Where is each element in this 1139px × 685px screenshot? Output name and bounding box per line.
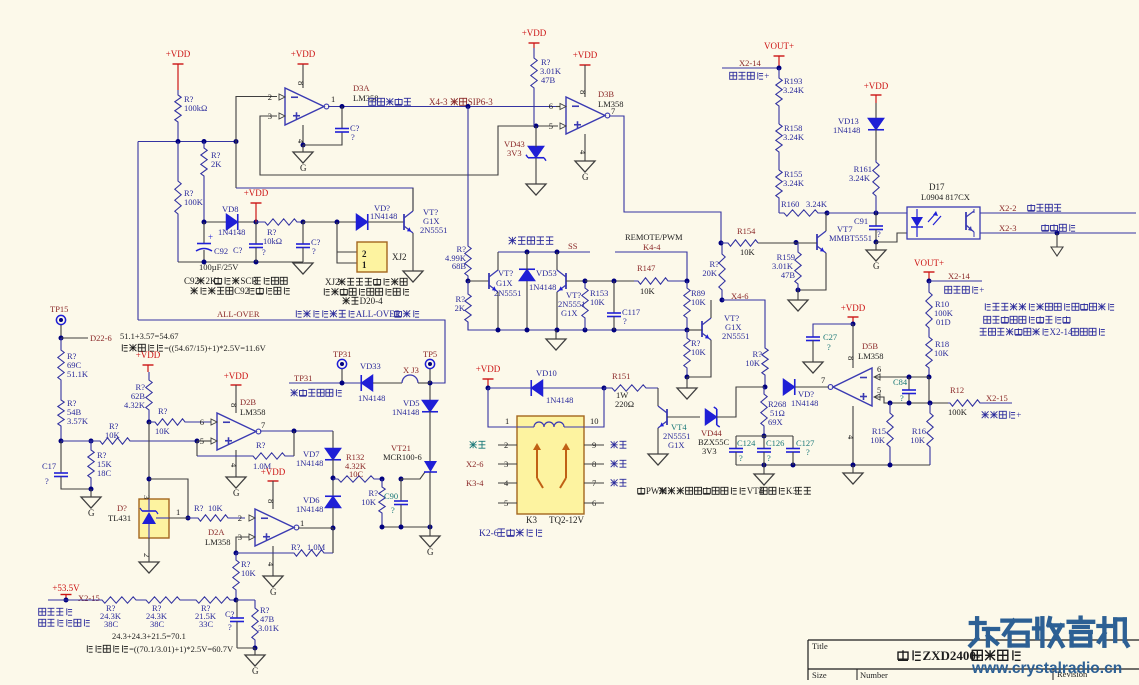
zener VD44 BZX55C 3V3	[705, 409, 717, 425]
svg-text:8: 8	[229, 403, 239, 407]
svg-text:X2-15: X2-15	[986, 393, 1008, 403]
svg-text:+VDD: +VDD	[261, 467, 286, 477]
wire VT21 cath	[429, 472, 431, 527]
svg-text:X2-2: X2-2	[999, 203, 1016, 213]
svg-text:100K: 100K	[184, 197, 204, 207]
svg-text:www.crystalradio.cn: www.crystalradio.cn	[971, 660, 1122, 677]
svg-text:TP5: TP5	[423, 349, 437, 359]
capacitor C? (b)	[296, 243, 310, 245]
pin note idle R8	[611, 463, 618, 465]
svg-text:X2-14: X2-14	[948, 271, 970, 281]
capacitor C91	[869, 225, 883, 227]
note XJ2 line2	[323, 288, 325, 295]
resistor R? 15K 18C	[88, 441, 94, 489]
wire stem C17 gnd	[90, 489, 92, 497]
svg-text:+VDD: +VDD	[166, 49, 191, 59]
op-amp D2B LM358	[217, 413, 256, 450]
svg-text:R?: R?	[158, 406, 168, 416]
svg-text:1: 1	[176, 507, 180, 517]
note calc4	[86, 645, 88, 652]
svg-text:C92: C92	[234, 286, 249, 296]
ground D2A	[263, 576, 283, 587]
resistor R? 100K	[175, 142, 181, 263]
svg-text:R?: R?	[256, 440, 266, 450]
wire D22-6 stub	[61, 337, 88, 339]
transistor VT4 2N5551 G1X	[666, 409, 668, 425]
svg-text:D5B: D5B	[862, 341, 878, 351]
junction	[399, 477, 404, 482]
wire TP31 stem	[341, 369, 343, 383]
svg-text:R?: R?	[291, 542, 301, 552]
svg-text:3.01K: 3.01K	[258, 623, 280, 633]
title block border	[808, 639, 1139, 641]
wire stem VT21 gnd	[429, 527, 431, 536]
svg-text:K3: K3	[526, 515, 537, 525]
capacitor C? (a)	[249, 243, 263, 245]
ground 53V divider	[245, 655, 265, 666]
svg-text:C?: C?	[225, 609, 235, 619]
diode VD8 1N4148	[226, 214, 238, 230]
svg-text:C92: C92	[214, 246, 228, 256]
junction	[399, 525, 404, 530]
svg-text:3V3: 3V3	[507, 148, 522, 158]
svg-text:+VDD: +VDD	[224, 371, 249, 381]
svg-text:1N4148: 1N4148	[529, 282, 556, 292]
svg-text:G1X: G1X	[496, 278, 513, 288]
diode VD5 1N4148	[422, 400, 438, 412]
ground delay row	[293, 263, 313, 274]
junction	[525, 328, 530, 333]
svg-text:?: ?	[767, 453, 771, 463]
wire alarm to D3B pin6	[468, 106, 556, 108]
wire fb left	[196, 441, 198, 456]
wire pin4 D2A	[272, 546, 274, 576]
resistor R? 62B 4.32K	[146, 372, 152, 422]
op-amp D5B LM358	[833, 368, 872, 406]
svg-text:33C: 33C	[199, 619, 214, 629]
watermark crystalradio.cn	[971, 618, 999, 645]
svg-text:X J3: X J3	[403, 365, 419, 375]
wire latch feedback	[236, 188, 413, 211]
pin5 arrow	[560, 123, 566, 129]
svg-text:24.3+24.3+21.5=70.1: 24.3+24.3+21.5=70.1	[112, 631, 186, 641]
svg-text:10K: 10K	[870, 435, 886, 445]
wire VD10 left	[488, 387, 531, 389]
note battery 1	[984, 303, 986, 310]
wire VD? to D5B	[795, 386, 829, 388]
wire gate link	[401, 472, 425, 479]
svg-text:10C: 10C	[349, 469, 364, 479]
junction	[331, 476, 336, 481]
wire C126 v	[763, 436, 765, 448]
svg-text:X2-6: X2-6	[466, 459, 483, 469]
wire C117 top	[613, 281, 615, 313]
svg-text:2K: 2K	[211, 159, 222, 169]
svg-text:TP31: TP31	[294, 373, 312, 383]
wire pin8 D3B	[584, 65, 586, 97]
junction	[202, 220, 207, 225]
diode VD33 1N4148	[361, 375, 373, 391]
svg-text:10K: 10K	[155, 426, 171, 436]
svg-text:?: ?	[877, 229, 881, 239]
junction	[685, 375, 690, 380]
wire C84 top	[908, 377, 910, 390]
svg-text:G: G	[300, 163, 307, 173]
wire C? tap	[236, 600, 238, 618]
wire X2-14 stub	[722, 67, 779, 69]
svg-text:10kΩ: 10kΩ	[263, 236, 282, 246]
op-amp D3A LM358	[285, 88, 324, 125]
wire VD33 to XJ3	[373, 382, 402, 384]
wire Q2 base	[468, 280, 489, 282]
wire X2-14 mid	[929, 280, 982, 282]
diode VD7 1N4148	[325, 448, 341, 460]
svg-text:TP31: TP31	[333, 349, 351, 359]
wire cathode link	[876, 233, 907, 242]
note PWM duty	[638, 489, 645, 494]
wire fb corner	[332, 528, 334, 553]
junction	[335, 220, 340, 225]
svg-text:2N5551: 2N5551	[420, 225, 447, 235]
wire VD7-VD6	[332, 459, 334, 497]
diode VD13 1N4148	[868, 118, 884, 130]
wire gnd stem D3A	[302, 145, 304, 152]
svg-text:3: 3	[142, 495, 152, 499]
svg-text:8: 8	[266, 499, 276, 503]
wire Q2 emitter	[497, 292, 499, 330]
svg-text:R147: R147	[637, 263, 655, 273]
wire temp input	[289, 382, 361, 384]
wire pin8 D2A	[272, 481, 274, 509]
svg-text:6: 6	[877, 364, 881, 374]
svg-text:100kΩ: 100kΩ	[184, 103, 207, 113]
svg-text:VD8: VD8	[222, 204, 239, 214]
svg-text:38C: 38C	[104, 619, 119, 629]
wire pin5 jog	[875, 397, 948, 403]
wire C91 bottom	[875, 230, 877, 243]
capacitor C126	[757, 448, 771, 450]
wire Q2 collector	[497, 252, 499, 270]
resistor R155 3.24K	[776, 170, 782, 213]
wire K3 pin10 feed	[584, 388, 604, 427]
svg-text:VD33: VD33	[360, 361, 381, 371]
test point TP31	[337, 359, 346, 368]
wire rail end	[236, 599, 255, 601]
junction	[254, 260, 259, 265]
junction	[253, 646, 258, 651]
svg-text:+53.5V: +53.5V	[52, 583, 80, 593]
resistor R154 10K	[721, 240, 758, 246]
resistor R10 100K 01D	[926, 281, 932, 334]
junction	[907, 401, 912, 406]
wire K3 right pin 9	[584, 444, 604, 446]
resistor R151 1W 220	[604, 385, 658, 391]
svg-text:+VDD: +VDD	[136, 350, 161, 360]
svg-text:VOUT+: VOUT+	[914, 258, 944, 268]
pin5 arrow D2B	[211, 438, 217, 444]
junction	[1055, 231, 1060, 236]
svg-text:?: ?	[351, 132, 355, 142]
junction	[825, 211, 830, 216]
wire X2-3 out	[980, 232, 1136, 234]
svg-text:=((70.1/3.01)+1)*2.5V=60.7V: =((70.1/3.01)+1)*2.5V=60.7V	[129, 644, 234, 654]
svg-text:2N5551: 2N5551	[722, 331, 749, 341]
svg-text:D22-6: D22-6	[90, 333, 112, 343]
junction	[301, 220, 306, 225]
wire pin8 D3A	[302, 64, 304, 88]
svg-text:2: 2	[362, 249, 367, 259]
svg-text:K4-4: K4-4	[643, 242, 661, 252]
wire VT7 base	[758, 242, 817, 244]
capacitor C84	[902, 389, 916, 391]
wire K3 left pin 2	[498, 444, 517, 446]
svg-text:6: 6	[549, 101, 553, 111]
svg-text:G: G	[88, 508, 95, 518]
net note alarm out	[1028, 206, 1035, 211]
junction	[794, 240, 799, 245]
svg-text:C84: C84	[893, 377, 908, 387]
svg-text:47B: 47B	[541, 75, 556, 85]
wire pin5 stub D2B	[197, 440, 211, 442]
wire gnd bus D5B	[736, 464, 930, 466]
junction	[874, 240, 879, 245]
junction	[202, 260, 207, 265]
wire Q4 emitter	[687, 340, 711, 377]
transistor VT? G1X 2N5551 (alarm)	[403, 214, 405, 230]
wire Q4 collector	[710, 300, 712, 318]
svg-text:1: 1	[505, 416, 509, 426]
junction	[147, 420, 152, 425]
wire D3A output	[328, 106, 468, 108]
svg-text:2: 2	[238, 513, 242, 523]
wire VD13 to R161	[875, 129, 877, 160]
wire bottom bus	[178, 261, 303, 263]
junction	[340, 104, 345, 109]
wire fb right	[293, 431, 295, 456]
wire Q4 base	[687, 329, 702, 331]
pin6 arrow	[560, 104, 566, 110]
junction	[719, 241, 724, 246]
svg-text:C91: C91	[854, 216, 868, 226]
svg-text:C17: C17	[42, 461, 56, 471]
thyristor VT21 MCR100-6	[424, 461, 437, 472]
svg-text:TL431: TL431	[108, 513, 131, 523]
svg-text:R154: R154	[737, 226, 756, 236]
wire Q3 emitter	[556, 292, 558, 330]
pin6 arrow D5B	[874, 374, 880, 380]
svg-text:+: +	[979, 285, 984, 295]
junction	[525, 250, 530, 255]
junction	[762, 463, 767, 468]
wire C90 bot	[400, 505, 402, 528]
wire K3 right pin 7	[584, 482, 604, 484]
resistor R? 3.01K 47B	[531, 48, 537, 126]
wire VD10 right	[543, 387, 604, 389]
wire pin4 to C	[303, 132, 342, 145]
wire K4-4	[615, 252, 687, 281]
wire K3 right pin 8	[584, 463, 604, 465]
op-amp D3B LM358	[566, 97, 605, 134]
resistor R? 54B 3.57K	[58, 398, 64, 441]
svg-text:5: 5	[877, 385, 881, 395]
wire K3 left pin 3	[498, 463, 517, 465]
svg-text:1: 1	[362, 260, 367, 270]
wire D2A out	[298, 527, 333, 529]
svg-text:MMBT5551: MMBT5551	[829, 233, 872, 243]
wire C117 bot	[613, 317, 615, 331]
pin note idle L2	[470, 444, 477, 446]
resistor R? 10K (bias)	[684, 330, 690, 377]
svg-text:8: 8	[296, 81, 306, 85]
resistor R? 69C 51.1K	[58, 338, 64, 398]
capacitor C127	[786, 448, 800, 450]
svg-text:7: 7	[821, 375, 825, 385]
svg-text:5: 5	[200, 436, 204, 446]
svg-text:6: 6	[200, 417, 204, 427]
resistor R89 10K	[684, 281, 690, 330]
svg-text:220Ω: 220Ω	[615, 399, 634, 409]
svg-text:X2-14: X2-14	[739, 58, 761, 68]
svg-text:REMOTE/PWM: REMOTE/PWM	[625, 232, 683, 242]
svg-text:+VDD: +VDD	[291, 49, 316, 59]
resistor R? 1.0M (D2B fb)	[197, 453, 294, 459]
wire stem gnd main	[852, 465, 854, 473]
wire TP5 stem	[429, 369, 431, 383]
svg-text:4.32K: 4.32K	[124, 400, 146, 410]
svg-text:10K: 10K	[691, 347, 707, 357]
junction	[254, 220, 259, 225]
ground arrow X2-3	[1056, 233, 1058, 247]
wire SS bus	[498, 251, 590, 253]
svg-text:R160: R160	[781, 199, 799, 209]
resistor R268 51 69X	[761, 387, 767, 436]
svg-text:G: G	[252, 666, 259, 676]
wire VT emitter	[412, 233, 414, 271]
svg-text:+: +	[208, 232, 213, 242]
resistor R153 10K	[582, 281, 588, 330]
svg-text:G: G	[873, 261, 880, 271]
pin6 arrow D2B	[211, 419, 217, 425]
svg-text:1N4148: 1N4148	[833, 125, 860, 135]
svg-text:10K: 10K	[590, 297, 606, 307]
resistor R12 100K	[948, 400, 1012, 406]
svg-text:TQ2-12V: TQ2-12V	[549, 515, 584, 525]
svg-text:3.24K: 3.24K	[783, 85, 805, 95]
wire XJ3 to TP5	[418, 382, 430, 384]
svg-text:C90: C90	[384, 491, 398, 501]
note out ovp	[39, 619, 46, 626]
wire pin4 D2B	[235, 450, 237, 477]
resistor R? 10K (gate)	[379, 479, 385, 527]
wire R160 to opto	[827, 212, 907, 214]
wire TP15 stem	[60, 325, 62, 338]
wire pin6 D5B	[875, 376, 929, 378]
wire pin6 stub	[556, 106, 560, 108]
note C92 line2	[191, 290, 198, 292]
wire Q3 collector	[556, 252, 558, 270]
svg-text:Title: Title	[812, 641, 828, 651]
wire C92 bottom	[203, 250, 205, 262]
wire VT7 collector	[825, 213, 827, 231]
wire stem 53V	[254, 648, 256, 655]
wire VT21 anode	[429, 383, 431, 401]
svg-text:MCR100-6: MCR100-6	[383, 452, 422, 462]
op-amp D2A LM358	[255, 509, 294, 546]
junction	[234, 551, 239, 556]
resistor R? 2K (soft)	[465, 281, 471, 330]
svg-text:100K: 100K	[948, 407, 968, 417]
svg-text:8: 8	[846, 356, 856, 360]
svg-text:8: 8	[578, 90, 588, 94]
wire X4-6	[722, 300, 765, 345]
svg-text:69X: 69X	[768, 417, 783, 427]
junction	[851, 463, 856, 468]
svg-text:Size: Size	[812, 670, 827, 680]
junction	[791, 463, 796, 468]
net note sample volt	[982, 414, 989, 416]
wire to C117	[585, 280, 634, 282]
resistor R? 21.5K 33C	[194, 597, 236, 603]
svg-text:D?: D?	[117, 503, 127, 513]
wire K3 left pin 4	[498, 482, 517, 484]
junction	[486, 386, 491, 391]
junction	[927, 279, 932, 284]
resistor R? 10kOhm	[256, 219, 303, 225]
svg-text:+VDD: +VDD	[841, 303, 866, 313]
junction	[331, 526, 336, 531]
resistor R? 24.3K 38C (1)	[100, 597, 143, 603]
svg-text:X4-3: X4-3	[429, 97, 448, 107]
resistor R? 47B 3.01K	[252, 600, 258, 648]
note ALL-OVER pulled low	[295, 310, 297, 317]
wire VD44 to node	[717, 387, 765, 417]
resistor R159 3.01K 47B	[795, 243, 801, 290]
svg-text:G1X: G1X	[668, 440, 685, 450]
junction	[301, 143, 306, 148]
capacitor C? (53V)	[230, 617, 244, 619]
wire VT4 collector	[657, 388, 659, 406]
junction	[340, 381, 345, 386]
wire C? bot	[255, 248, 257, 263]
svg-text:+VDD: +VDD	[522, 28, 547, 38]
svg-text:1N4148: 1N4148	[358, 393, 385, 403]
resistor R? 10K (ref)	[188, 515, 245, 521]
resistor R? 10K (pin6)	[149, 419, 211, 425]
svg-text:+: +	[764, 71, 769, 81]
wire ALL-OVER rail	[138, 320, 445, 383]
wire C127 v	[792, 436, 794, 448]
svg-text:3.24K: 3.24K	[783, 132, 805, 142]
svg-text:3.24K: 3.24K	[783, 178, 805, 188]
svg-text:R?: R?	[194, 503, 204, 513]
capacitor C90	[394, 500, 408, 502]
test point TP15	[56, 315, 65, 324]
wire delay row	[204, 221, 226, 223]
junction	[888, 463, 893, 468]
ground VT21	[420, 536, 440, 547]
junction	[466, 104, 471, 109]
svg-text:10K: 10K	[241, 568, 257, 578]
wire to VD?	[303, 221, 356, 223]
svg-text:10K: 10K	[208, 503, 224, 513]
wire VD7 stem	[332, 431, 334, 449]
wire pin4 D5B	[852, 406, 854, 465]
resistor R132 4.32K 10C	[333, 476, 382, 482]
capacitor C? (D3A)	[335, 128, 349, 130]
wire C124 v	[735, 436, 737, 448]
junction	[428, 381, 433, 386]
wire K3 pin1 feed	[488, 388, 517, 427]
